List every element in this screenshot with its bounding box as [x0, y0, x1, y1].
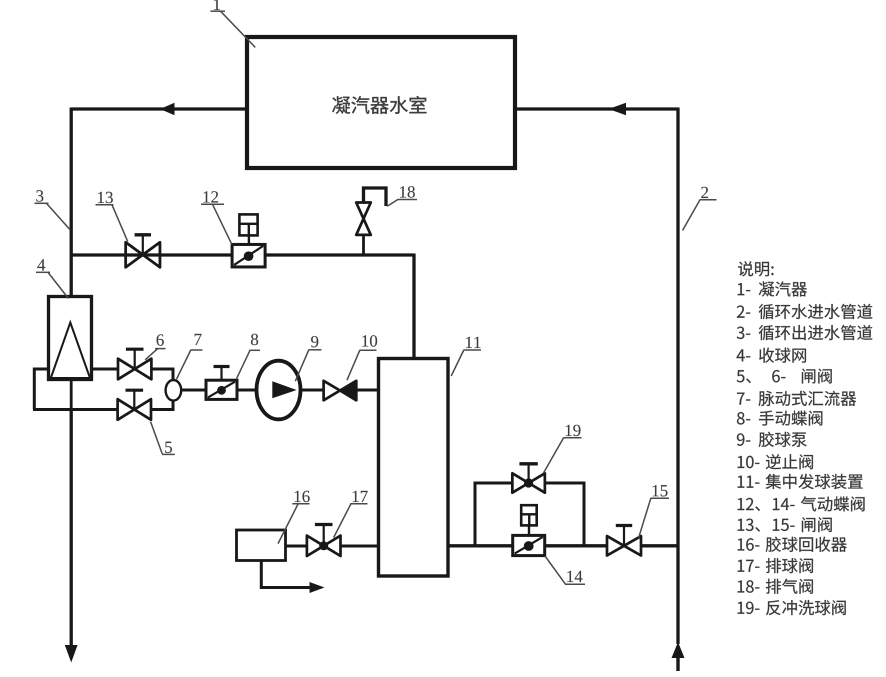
- ball discharge valve 17: [307, 525, 341, 557]
- label 4 ball net: [36, 259, 69, 298]
- arrow: recycler drain outlet (pointing right): [310, 582, 325, 593]
- manual butterfly valve 8: [206, 367, 237, 400]
- legend text block 说明: [737, 261, 873, 615]
- gate valve 5: [118, 390, 151, 420]
- label 10 check valve: [347, 335, 377, 380]
- wire: left stub box of ball net (suction chamber): [34, 369, 49, 410]
- wire: upper branch y=369 from net 4 to valve 6 and corner to mixer 7: [91, 368, 119, 371]
- ball recycler (component 16): [237, 530, 286, 561]
- wire: pipe from ball net 4 bottom down to lower branch: [70, 379, 73, 411]
- wire: riser from y255 pipe down into unit 11 top: [412, 254, 415, 360]
- wire: backwash bypass loop around valve 14: [475, 483, 514, 546]
- centralized ball feeder (component 11): [379, 359, 449, 577]
- pneumatic butterfly valve 12: [232, 214, 265, 267]
- label 19 backwash valve: [544, 425, 582, 473]
- gate valve 15: [607, 526, 641, 556]
- label 13 gate valve: [96, 192, 128, 242]
- wire: bottom-right pipe from unit 11 to valve 14 to valve 15 to net 2: [448, 544, 514, 547]
- label 16 recycler: [278, 491, 310, 544]
- gate valve 13: [126, 235, 160, 267]
- label 5 gate valve: [151, 422, 175, 455]
- label 9 pump: [295, 336, 321, 381]
- label 12 pneumatic valve: [201, 191, 232, 244]
- wire: right vertical pipe (net 2): [676, 108, 679, 645]
- rubber ball pump 9: [257, 361, 301, 420]
- wire: top-left horizontal pipe into condenser: [71, 107, 247, 110]
- label 17 discharge valve: [334, 491, 368, 538]
- wire: left vertical pipe lower run to drain arrow: [70, 409, 73, 648]
- wire: lower branch y=409.5 from stub to valve 5 and corner to mixer 7: [33, 408, 119, 411]
- label 11 ball feeder: [451, 337, 481, 376]
- label 2 inlet pipe: [683, 187, 717, 231]
- arrow: circulating water outlet (bottom-left, pointing down): [65, 645, 78, 663]
- backwash ball valve 19: [512, 464, 545, 493]
- condenser title text 凝汽器水室: [332, 96, 426, 114]
- wire: bottom-left pipe from recycler 16 to valve 17 to unit 11: [285, 545, 308, 548]
- wire: right pipe stub below inlet arrow: [676, 655, 679, 671]
- wire: top-right horizontal pipe from condenser to right riser: [515, 107, 678, 110]
- pulse-type confluence mixer 7: [166, 380, 182, 401]
- wire: left vertical pipe (net 3) upper run: [70, 108, 73, 297]
- ball collecting net screen triangle: [51, 323, 90, 379]
- label 7 mixer: [177, 334, 203, 379]
- label 3 outlet pipe: [35, 190, 71, 230]
- arrow: circulating water inlet (bottom-right, pointing up): [672, 642, 685, 658]
- wire: valve 18 lower stem: [362, 234, 365, 255]
- label 1 condenser: [211, 0, 256, 47]
- label 6 gate valve: [145, 334, 165, 359]
- wire: valve 18 upper stem and vent gooseneck: [364, 188, 387, 206]
- label 8 butterfly valve: [237, 334, 260, 379]
- wire: horizontal pipe y=255 from left pipe to ball-feeder riser: [71, 253, 414, 256]
- label 14 pneumatic valve: [545, 556, 585, 584]
- wire: recycler 16 drain with arrow: [261, 560, 311, 588]
- wire: main pump line y=390 segments: [181, 389, 208, 392]
- pneumatic butterfly valve 14: [513, 505, 545, 555]
- label 18 air valve: [387, 186, 417, 206]
- label 15 gate valve: [639, 485, 669, 538]
- ball collecting net (component 4) outer box: [49, 297, 92, 380]
- check valve 10 (open left triangle, solid right triangle): [324, 381, 357, 401]
- gate valve 6: [118, 349, 151, 379]
- air release valve 18 (vertical bowtie): [356, 203, 371, 235]
- condenser water chamber U1 (box 1): [247, 37, 515, 168]
- arrow: flow into condenser (right, pointing left): [609, 103, 627, 115]
- arrow: flow into condenser (left, pointing left): [160, 103, 175, 115]
